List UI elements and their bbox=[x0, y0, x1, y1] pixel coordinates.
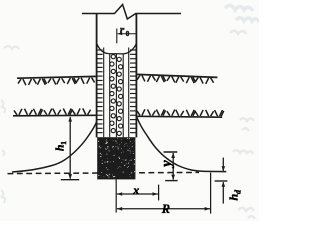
h_d upper pointer bbox=[222, 158, 226, 172]
sand plug block (stippled) bbox=[97, 137, 135, 179]
svg-text:0: 0 bbox=[126, 29, 130, 38]
screen pipe left wall bbox=[109, 54, 111, 137]
dimension R line bbox=[117, 207, 210, 211]
ground surface line left bbox=[17, 76, 97, 85]
dimension x line bbox=[117, 185, 159, 201]
axis extension line bbox=[115, 179, 117, 212]
svg-text:d: d bbox=[233, 189, 242, 194]
svg-text:r: r bbox=[120, 24, 125, 36]
label r0 bbox=[120, 24, 130, 38]
borehole/casing left wall bbox=[96, 14, 98, 138]
label x bbox=[132, 183, 139, 197]
label R bbox=[161, 202, 170, 216]
lower stratum line left (hatch above) bbox=[13, 108, 97, 115]
lower stratum line right (hatch above) bbox=[136, 109, 223, 117]
ground surface line right bbox=[136, 74, 217, 84]
svg-text:y: y bbox=[159, 160, 175, 169]
recharge mound curve left bbox=[12, 122, 97, 173]
riser pipe break line with zigzag bbox=[82, 5, 181, 20]
h_d lower tick line bbox=[215, 180, 228, 182]
watermark squiggles (decorative scan marks) bbox=[1, 5, 259, 219]
R right boundary tick bbox=[210, 173, 212, 214]
r0 dimension line bbox=[118, 32, 136, 35]
label y bbox=[159, 160, 175, 169]
gravel zone inner line right bbox=[128, 48, 130, 138]
well center axis line bbox=[115, 54, 117, 137]
svg-text:1: 1 bbox=[59, 141, 68, 145]
gravel pack ticks left annulus bbox=[97, 50, 103, 133]
lowered water level dashed line bbox=[8, 172, 200, 173]
gravel zone inner line left bbox=[103, 48, 105, 138]
h_d lower pointer bbox=[222, 182, 226, 204]
svg-text:x: x bbox=[132, 183, 139, 197]
dimension h1 arrow bbox=[61, 116, 79, 180]
svg-text:R: R bbox=[161, 202, 170, 216]
borehole/casing right wall bbox=[135, 14, 137, 138]
label h_d bbox=[227, 189, 243, 201]
screen pipe right wall bbox=[122, 54, 124, 137]
dimension y arrow bbox=[164, 152, 178, 181]
well axis tick (top) bbox=[116, 29, 118, 44]
filter-pack top bowl bbox=[97, 43, 137, 54]
recharge mound curve right bbox=[137, 117, 227, 172]
gravel pack ticks right annulus bbox=[130, 50, 136, 133]
label h1 bbox=[55, 141, 68, 151]
screen perforation circles bbox=[110, 55, 123, 136]
